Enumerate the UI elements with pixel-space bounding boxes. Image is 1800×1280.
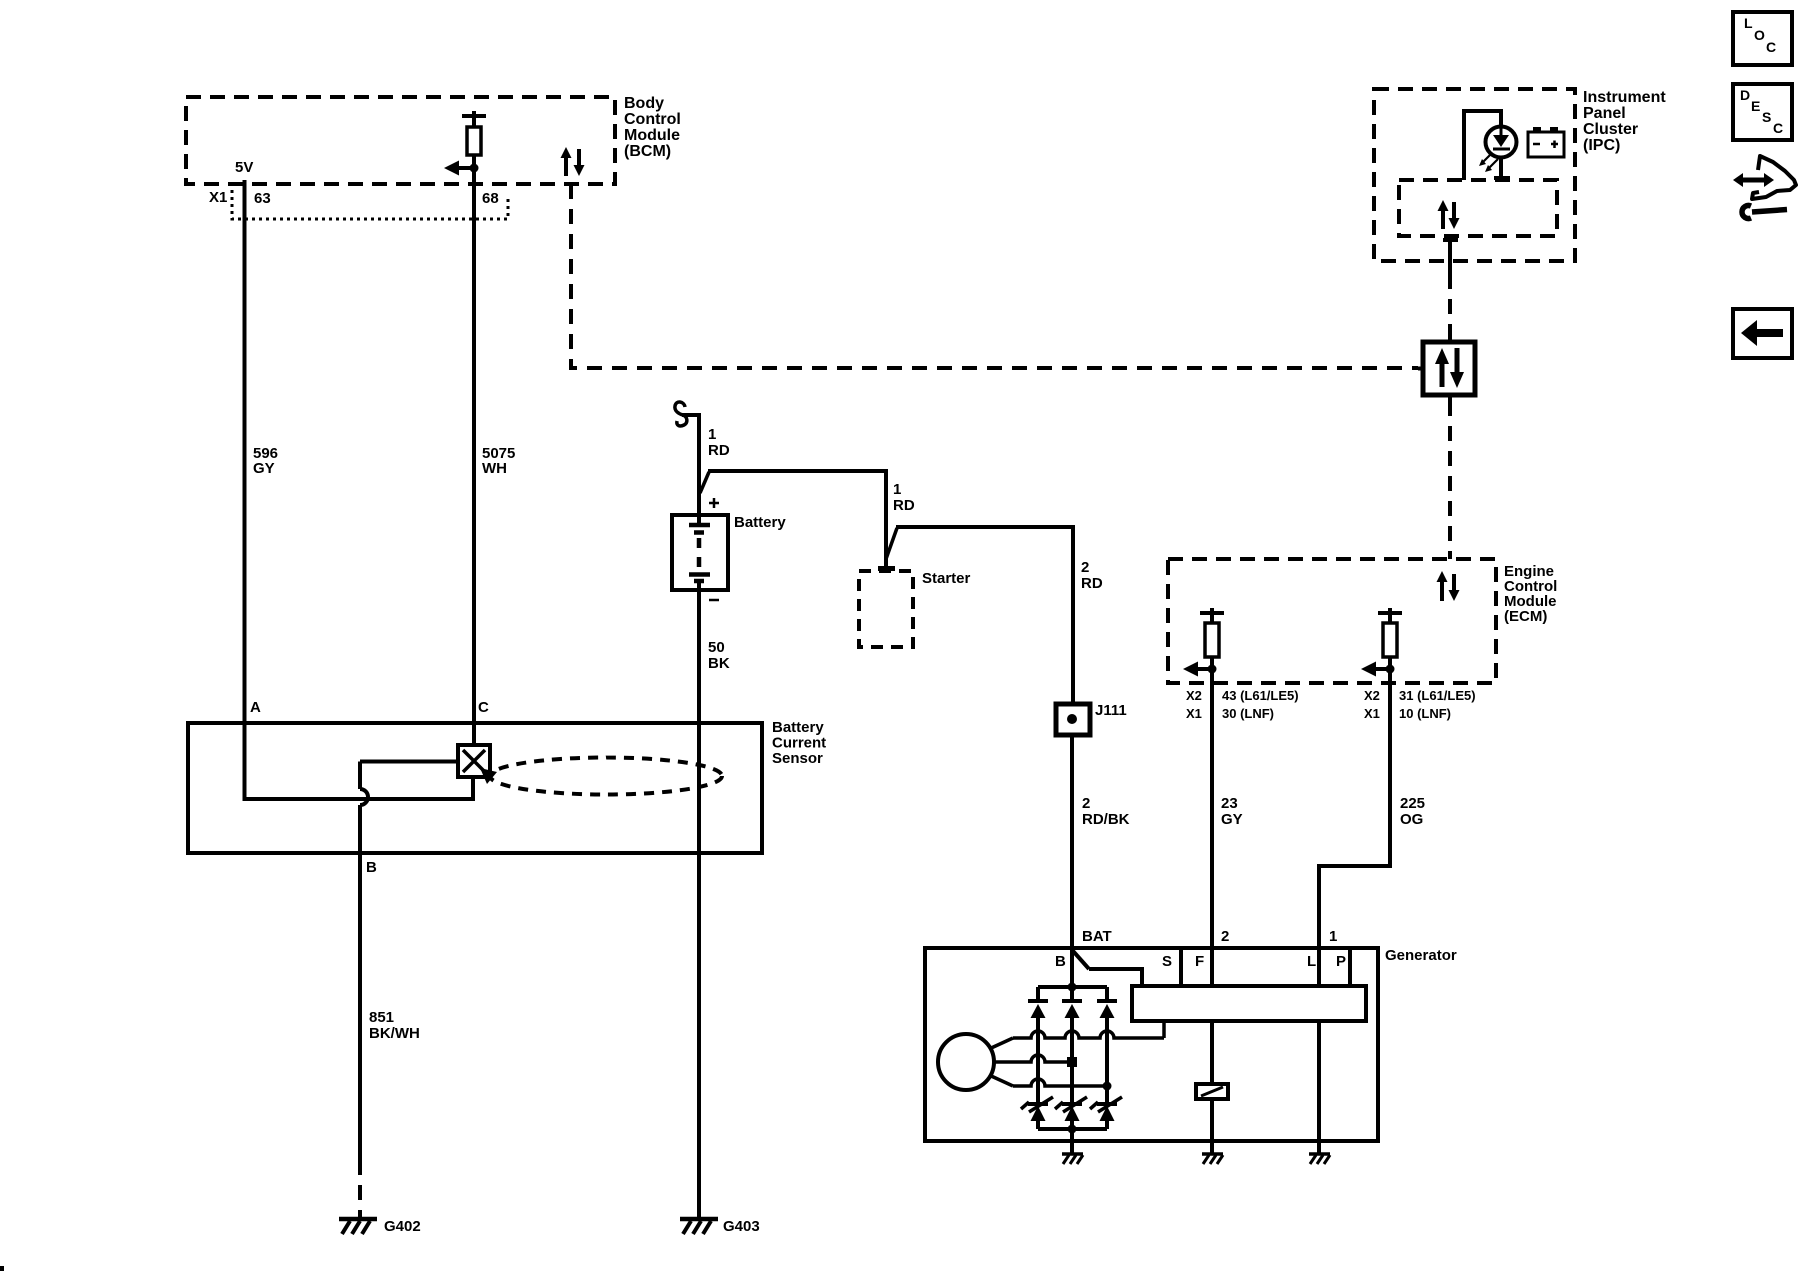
J111 junction block [1056,704,1090,735]
svg-text:X2: X2 [1364,688,1380,703]
junction node [1386,665,1395,674]
svg-text:50: 50 [708,639,725,656]
ECM label [1504,563,1557,625]
svg-text:RD: RD [1081,575,1103,592]
svg-text:Cluster: Cluster [1583,121,1638,138]
svg-text:WH: WH [482,460,507,477]
avalanche diode lower leg 1 [1021,1097,1053,1129]
svg-text:L: L [1307,953,1316,970]
splice diagonal to 1 RD feed [700,472,709,493]
X1 connector (dotted) under BCM [232,190,508,219]
battery + sign [709,498,719,508]
svg-text:2: 2 [1221,928,1229,945]
up/down arrows in junction box [1435,348,1464,388]
resistor in BCM (pull-up on pin 68) [462,111,486,168]
DESC reference box [1733,84,1792,140]
wire 50 BK battery negative [697,582,701,1219]
svg-text:Battery: Battery [734,514,786,531]
pin P tick to regulator [1348,948,1352,987]
svg-text:225: 225 [1400,795,1425,812]
signal arrow (to ECM logic) [1183,662,1212,677]
svg-text:GY: GY [253,460,275,477]
svg-text:23: 23 [1221,795,1238,812]
resistor in ECM (pin 31/10 circuit) [1378,608,1402,669]
svg-text:F: F [1195,953,1204,970]
svg-text:E: E [1751,98,1760,114]
svg-text:X2: X2 [1186,688,1202,703]
svg-text:BK: BK [708,655,730,672]
wire label 596 GY [253,445,278,477]
svg-text:68: 68 [482,190,499,207]
ECM connector pin labels left [1186,688,1299,721]
svg-text:Body: Body [624,95,664,112]
sensor internal wire from pin A [245,777,474,799]
svg-text:X1: X1 [1364,706,1380,721]
rectifier ground symbol [1062,1154,1083,1164]
wire label 2 RD [1081,559,1103,592]
starter terminal bar [878,566,895,571]
signal arrow (to BCM logic) [444,161,474,176]
rectifier ground wire [1070,1129,1074,1154]
wire label 23 GY [1221,795,1243,828]
battery current sensor box [188,723,762,853]
dashed serial data wire IPC to junction box [1448,274,1452,342]
svg-text:63: 63 [254,190,271,207]
svg-text:C: C [1773,120,1783,136]
wire battery positive [697,415,701,524]
junction dot bottom bus [1068,1125,1077,1134]
pin F wire into regulator [1210,948,1214,987]
wire 23 GY (ECM to generator F) [1210,669,1214,987]
dashed serial data wire from BCM (down then right) [571,184,1418,368]
wire 2 RD horizontal to J111 [896,527,1073,704]
wire label 225 OG [1400,795,1425,828]
svg-text:43 (L61/LE5): 43 (L61/LE5) [1222,688,1299,703]
pin S tick to regulator [1179,948,1183,987]
wire 1 RD horizontal to starter branch [708,471,886,566]
svg-text:Starter: Starter [922,570,971,587]
battery [672,515,728,590]
serial data up/down arrows in ECM [1437,571,1460,601]
junction node at resistor output [470,164,479,173]
hall sensor element (X box) [458,745,490,777]
wire 5075 WH (BCM pin 68 to sensor pin C) [472,168,476,747]
svg-text:OG: OG [1400,811,1423,828]
svg-text:10 (LNF): 10 (LNF) [1399,706,1451,721]
diagnostic wrench icon [1733,156,1796,219]
rectifier top bus [1038,985,1107,989]
wire label 851 BK/WH [369,1009,420,1042]
ECM connector pin labels right [1364,688,1476,721]
junction node [1208,665,1217,674]
charge indicator LED wiring in IPC [1464,111,1510,180]
svg-text:Sensor: Sensor [772,750,823,767]
dashed serial data wire junction box to ECM [1448,401,1452,559]
svg-text:B: B [366,859,377,876]
BCM module box (Body Control Module) [186,97,615,184]
battery telltale icon [1528,127,1564,157]
sensor internal wire pin B to X box with hop over A wire [360,762,458,854]
svg-text:(BCM): (BCM) [624,143,671,160]
resistor in ECM (pin 43/30 circuit) [1200,608,1224,669]
svg-text:1: 1 [893,481,901,498]
svg-text:RD: RD [893,497,915,514]
LED emission arrows [1479,153,1498,172]
page mark bottom left [0,1266,4,1271]
svg-text:X1: X1 [1186,706,1202,721]
svg-text:Control: Control [624,111,681,128]
svg-text:G403: G403 [723,1218,760,1235]
svg-text:BK/WH: BK/WH [369,1025,420,1042]
IPC label [1583,89,1666,154]
avalanche diode lower leg 2 [1055,1097,1087,1129]
field ground symbol [1202,1154,1223,1164]
wire 851 BK/WH sensor pin B to G402 [358,853,362,1219]
L ground symbol [1309,1154,1330,1164]
svg-text:Instrument: Instrument [1583,89,1666,106]
pin B internal wire to regulator [1073,951,1142,987]
svg-text:S: S [1162,953,1172,970]
back arrow box [1733,309,1792,358]
field winding wire below regulator [1210,1021,1214,1084]
svg-text:GY: GY [1221,811,1243,828]
junction dot bus/B wire [1068,983,1077,992]
wire label 2 RD/BK [1082,795,1130,828]
field coil ground wire [1210,1099,1214,1154]
stator winding middle phase [994,1055,1077,1067]
svg-text:B: B [1055,953,1066,970]
svg-text:P: P [1336,953,1346,970]
battery current sensor label [772,719,826,767]
ground G403 [680,1219,718,1234]
svg-text:(IPC): (IPC) [1583,137,1620,154]
svg-text:C: C [1766,39,1776,55]
BCM label [624,95,681,160]
svg-text:2: 2 [1082,795,1090,812]
svg-text:1: 1 [708,426,716,443]
IPC module box (Instrument Panel Cluster) [1374,89,1575,261]
serial data up/down arrows in BCM [561,147,585,176]
signal arrow (to ECM logic) [1361,662,1390,677]
svg-text:O: O [1754,27,1765,43]
avalanche diode lower leg 3 [1090,1097,1122,1129]
pin L wire into regulator [1317,948,1321,987]
field coil element [1196,1084,1228,1099]
voltage regulator [1132,986,1366,1021]
ground G402 [339,1219,377,1234]
rectifier diode top leg 3 [1097,987,1117,1104]
generator box [925,948,1378,1141]
wire 596 GY (BCM pin 63 to battery current sensor pin A) [243,180,247,799]
rectifier diode top leg 2 [1062,987,1082,1104]
wire label 1 RD (starter leg) [893,481,915,514]
svg-text:G402: G402 [384,1218,421,1235]
svg-text:D: D [1740,87,1750,103]
stator winding top phase [989,1031,1164,1049]
wire label 50 BK [708,639,730,672]
svg-text:Panel: Panel [1583,105,1626,122]
svg-text:31 (L61/LE5): 31 (L61/LE5) [1399,688,1476,703]
splice diagonal to 2 RD feed [886,528,897,559]
svg-text:X1: X1 [209,189,227,206]
svg-text:851: 851 [369,1009,394,1026]
svg-text:Generator: Generator [1385,947,1457,964]
IPC inner module (dashed) [1399,180,1557,236]
svg-text:BAT: BAT [1082,928,1112,945]
svg-text:A: A [250,699,261,716]
stator winding bottom phase [989,1075,1112,1091]
battery - sign [709,599,719,602]
svg-text:1: 1 [1329,928,1337,945]
svg-text:30 (LNF): 30 (LNF) [1222,706,1274,721]
battery positive feed curl (fusible link end) [675,402,701,426]
wire label 5075 WH [482,445,515,477]
svg-text:Current: Current [772,735,826,752]
solid pin stub below IPC [1448,240,1452,274]
pin B wire to rectifier bus [1070,948,1074,987]
serial data junction box [1418,336,1475,401]
svg-text:RD/BK: RD/BK [1082,811,1130,828]
svg-text:L: L [1744,15,1753,31]
svg-text:(ECM): (ECM) [1504,608,1547,625]
indicator LED (telltale) [1486,127,1517,158]
regulator stub to stator winding [1162,1021,1166,1038]
sensing loop dashed ellipse around battery cable [480,758,722,795]
rectifier bottom bus [1038,1127,1107,1131]
IPC pin terminal bar [1443,238,1458,242]
svg-text:S: S [1762,109,1771,125]
wire 2 RD/BK J111 to generator BAT [1070,735,1074,948]
serial data up/down arrows in IPC [1438,200,1460,229]
rectifier diode top leg 1 [1028,987,1048,1104]
svg-text:C: C [478,699,489,716]
svg-text:RD: RD [708,442,730,459]
ECM module box (Engine Control Module) [1168,559,1496,683]
rotor (field) circle [938,1034,994,1090]
svg-text:J111: J111 [1095,702,1127,719]
svg-text:Battery: Battery [772,719,824,736]
wire 225 OG (ECM to generator L) [1319,669,1390,987]
svg-text:Module: Module [624,127,680,144]
L circuit ground wire [1317,1021,1321,1154]
wire label 1 RD (battery) [708,426,730,459]
svg-text:5V: 5V [235,159,253,176]
svg-text:2: 2 [1081,559,1089,576]
starter box (dashed) [859,571,913,647]
LOC reference box (top right) [1733,12,1792,65]
